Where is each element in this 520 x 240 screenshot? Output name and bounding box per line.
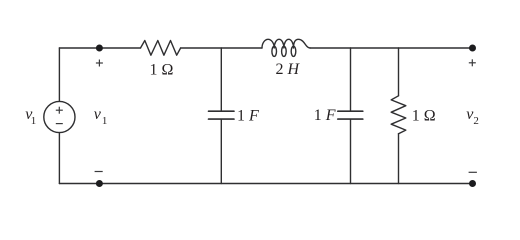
minus polarity bottom left (95, 171, 103, 173)
wire left rail upper (58, 48, 60, 101)
capacitor C1 plates (209, 111, 235, 119)
svg-text:1 F: 1 F (314, 107, 336, 124)
wire top rail left segment (59, 47, 140, 49)
wire resistor R2 bottom stub (398, 134, 400, 184)
plus polarity top right (469, 62, 476, 64)
inductor L1 petal 1 (272, 46, 277, 56)
terminal dot top right (469, 45, 476, 52)
wire resistor R2 top stub (398, 48, 400, 96)
svg-text:1 F: 1 F (237, 107, 259, 124)
voltage source U1 circle (44, 101, 75, 132)
svg-text:1 Ω: 1 Ω (412, 107, 436, 124)
svg-text:2: 2 (473, 115, 479, 127)
wire capacitor C2 top stub (350, 48, 352, 111)
inductor L1 humps (262, 39, 310, 48)
wire capacitor C1 bottom stub (220, 120, 222, 184)
wire bottom rail (59, 183, 472, 185)
svg-text:v: v (94, 106, 102, 123)
svg-text:2 H: 2 H (276, 61, 301, 78)
minus sign inside source (56, 123, 63, 125)
plus polarity top left (96, 62, 103, 64)
resistor R2 zigzag (391, 96, 406, 134)
wire capacitor C2 bottom stub (350, 120, 352, 184)
inductor L1 petal 2 (282, 46, 287, 56)
wire top rail middle segment (181, 47, 262, 49)
node dot top left (96, 45, 103, 52)
wire left rail lower (58, 133, 60, 184)
svg-text:1 Ω: 1 Ω (150, 62, 174, 79)
inductor L1 petal 3 (291, 46, 296, 56)
svg-text:1: 1 (102, 115, 108, 127)
terminal dot bottom right (469, 180, 476, 187)
wire top rail right segment (310, 47, 473, 49)
wire capacitor C1 top stub (220, 48, 222, 111)
plus sign inside source (56, 109, 63, 111)
capacitor C2 plates (338, 111, 363, 119)
node dot bottom left (96, 180, 103, 187)
svg-text:1: 1 (31, 115, 37, 127)
resistor R1 zigzag (141, 41, 181, 56)
minus polarity bottom right (469, 171, 477, 173)
